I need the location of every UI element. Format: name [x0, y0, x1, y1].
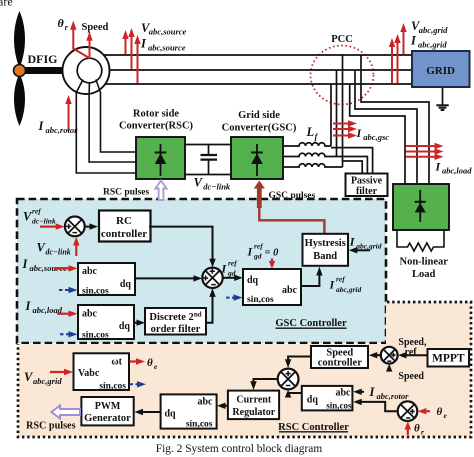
svg-text:sin,cos: sin,cos: [186, 420, 213, 430]
svg-text:filter: filter: [356, 186, 378, 197]
svg-text:sin,cos: sin,cos: [82, 287, 109, 297]
I_abc,load arrows: [406, 145, 437, 147]
theta_r arrow: [73, 29, 90, 59]
arrow J2 to dq/abc box: [223, 277, 237, 279]
wire dc link top: [185, 144, 231, 146]
svg-text:abc: abc: [82, 266, 98, 277]
svg-text:Speed: Speed: [82, 22, 109, 33]
wire dq/abc to Hystresis Band: [301, 272, 319, 286]
DFIG rotor inner circle: [77, 58, 102, 83]
svg-text:abc: abc: [282, 285, 298, 296]
svg-text:abc,grid: abc,grid: [419, 25, 448, 35]
wire rotor phase b: [89, 83, 136, 162]
load diode: [419, 190, 421, 222]
arrow I_abc,rotor into abc/dq: [359, 391, 364, 393]
svg-text:GRID: GRID: [426, 65, 455, 77]
svg-text:Load: Load: [412, 269, 436, 280]
svg-text:abc: abc: [336, 388, 352, 399]
svg-text:abc,source: abc,source: [149, 27, 187, 37]
blue dashed sin,cos arrow: [226, 297, 236, 299]
ground: [442, 87, 444, 105]
svg-text:PCC: PCC: [331, 34, 353, 45]
Vdc-link arrow up into J1: [75, 241, 77, 256]
svg-text:order filter: order filter: [151, 324, 201, 335]
svg-text:sin,cos: sin,cos: [99, 382, 126, 392]
wire RC controller to J2: [149, 227, 213, 261]
Passive filter box: [346, 174, 388, 197]
I_abc,rotor arrow: [68, 101, 70, 131]
GSC diode: [256, 144, 258, 176]
svg-text:Passive: Passive: [351, 176, 383, 187]
svg-text:controller: controller: [318, 358, 362, 369]
svg-text:Regulator: Regulator: [232, 407, 275, 418]
RSC diode: [160, 144, 162, 176]
svg-text:Non-linear: Non-linear: [399, 257, 448, 268]
svg-text:RSC pulses: RSC pulses: [103, 187, 149, 197]
svg-text:ref: ref: [32, 207, 42, 216]
svg-text:abc: abc: [82, 309, 98, 320]
wire gsc phase 1 riser: [330, 84, 332, 146]
MPPT box: [428, 349, 470, 367]
Discrete 2nd order filter box: [145, 308, 206, 335]
capacitor C dc-link: [208, 145, 210, 155]
inductor Lf row 1: [283, 143, 331, 146]
svg-text:Current: Current: [236, 395, 271, 406]
svg-text:controller: controller: [101, 228, 147, 240]
arrow J1 to RC controller: [85, 226, 91, 228]
wind turbine blades: [14, 11, 25, 64]
svg-text:dc−link: dc−link: [46, 248, 71, 257]
I_abc,load arrow into abc/dq box: [57, 313, 71, 315]
PCC dashed circle: [311, 46, 374, 105]
turbine shaft: [24, 67, 64, 74]
svg-text:Band: Band: [313, 251, 337, 262]
svg-text:sin,cos: sin,cos: [247, 295, 274, 305]
Hystresis Band box: [303, 234, 349, 266]
GSC pulses wire from hysteresis band: [259, 202, 324, 234]
Vabc box: [74, 353, 130, 390]
wire Speed controller to J3: [288, 357, 311, 363]
Speed controller box: [311, 346, 368, 368]
svg-text:sin,cos: sin,cos: [326, 401, 352, 411]
wire stator bus line 3: [105, 83, 412, 85]
wire J3 to Current Regulator: [254, 379, 278, 385]
inductor Lf row 2: [283, 153, 331, 156]
wire filter to J2: [206, 293, 213, 323]
svg-text:sin,cos: sin,cos: [82, 331, 109, 341]
summing junction J4: [381, 347, 398, 364]
GRID box: [412, 51, 470, 87]
Current Regulator box: [228, 391, 279, 420]
resistor of non-linear load: [397, 230, 444, 251]
svg-text:θ: θ: [437, 406, 443, 418]
svg-text:MPPT: MPPT: [432, 353, 465, 365]
inductor Lf row 3: [283, 164, 343, 167]
blue dashed sin,cos arrow: [59, 289, 71, 291]
wire stator bus line 1: [104, 54, 412, 56]
wire rotor phase c: [96, 80, 136, 153]
wire gsc phase 2 riser: [336, 70, 338, 157]
svg-text:θ: θ: [147, 357, 153, 369]
svg-text:r: r: [421, 428, 424, 437]
svg-text:dq: dq: [307, 395, 319, 406]
svg-text:Fig. 2 System control block di: Fig. 2 System control block diagram: [156, 443, 323, 455]
red arrow V_abc,grid into Vabc box: [50, 371, 67, 373]
summing junction J2: [202, 268, 222, 288]
wire filter tap 2: [331, 157, 367, 174]
wire stator bus line 2: [109, 69, 412, 71]
wire J5 to sin,cos of abc/dq: [359, 402, 398, 411]
svg-text:dq: dq: [119, 321, 131, 332]
svg-text:abc: abc: [198, 397, 214, 408]
summing junction J5: [398, 401, 418, 421]
summing junction J3: [278, 369, 299, 390]
svg-text:Generator: Generator: [84, 413, 131, 424]
wire load line 2: [355, 70, 417, 184]
dq-abc box (RSC): [161, 394, 217, 428]
V,I abc,source arrows: [125, 36, 127, 55]
wire dq out of abc/dq (rotor) to J3: [288, 392, 302, 393]
svg-text:abc,rotor: abc,rotor: [377, 391, 410, 401]
blue dashed sin,cos arrow: [60, 333, 71, 335]
svg-text:dq: dq: [247, 275, 259, 286]
svg-text:dq: dq: [165, 409, 177, 420]
RC controller box: [99, 211, 151, 242]
arrow to Discrete filter: [134, 322, 139, 324]
arrow dq/abc to PWM: [141, 411, 161, 413]
svg-text:= 0: = 0: [265, 248, 280, 259]
svg-text:are: are: [0, 0, 13, 9]
abc-dq box (rotor current): [302, 386, 353, 411]
svg-text:dc−link: dc−link: [203, 181, 231, 191]
svg-text:abc,load: abc,load: [442, 165, 472, 175]
Vref arrow into J1: [40, 226, 59, 228]
svg-text:ref: ref: [336, 275, 346, 284]
converter GSC box: [231, 137, 283, 179]
svg-text:ref: ref: [228, 259, 238, 268]
svg-text:gd: gd: [253, 252, 262, 261]
wire gsc phase 3 riser: [342, 55, 344, 167]
svg-text:PWM: PWM: [95, 401, 121, 412]
svg-text:dq: dq: [120, 279, 132, 290]
RSC pulses output arrow (left): [51, 406, 80, 419]
summing junction J1: [65, 217, 85, 237]
svg-text:Converter(RSC): Converter(RSC): [119, 121, 194, 132]
red arrow wt to theta_e: [130, 360, 139, 362]
wire dc link bottom: [185, 174, 231, 176]
svg-text:θ: θ: [58, 16, 65, 30]
wire filter tap 1: [331, 148, 373, 174]
abc-dq box (source current): [78, 263, 135, 295]
svg-text:GSC pulses: GSC pulses: [269, 191, 316, 201]
abc-dq box (load current): [78, 305, 134, 339]
wire load line 3: [350, 84, 405, 184]
GSC controller background box: [17, 199, 386, 343]
red arrow theta_r up into J5: [407, 426, 409, 436]
svg-text:Speed: Speed: [398, 371, 424, 382]
svg-text:RSC pulses: RSC pulses: [26, 421, 76, 432]
svg-text:Hystresis: Hystresis: [305, 238, 346, 249]
svg-text:abc,gsc: abc,gsc: [363, 132, 389, 142]
V,I abc,grid arrows: [391, 44, 393, 84]
svg-text:dc−link: dc−link: [32, 217, 56, 226]
svg-text:abc,source: abc,source: [148, 43, 186, 53]
svg-text:Rotor side: Rotor side: [133, 108, 180, 119]
svg-text:Grid side: Grid side: [238, 110, 280, 121]
arrow Current Regulator to dq/abc: [223, 405, 228, 407]
svg-text:DFIG: DFIG: [28, 52, 58, 66]
Speed arrow: [89, 40, 91, 58]
I_abc,gsc arrows: [333, 123, 351, 125]
arrow MPPT to J4: [404, 354, 428, 356]
PWM Generator box: [81, 397, 133, 425]
svg-text:ωt: ωt: [111, 357, 122, 368]
non-linear load converter box: [393, 184, 449, 230]
svg-text:abc,grid: abc,grid: [33, 376, 62, 386]
red arrow Igd=0 down into dq/abc: [271, 259, 273, 264]
svg-text:GSC Controller: GSC Controller: [275, 318, 347, 329]
red arrow theta_e into J5: [423, 410, 430, 412]
wire filter tap 3: [343, 161, 363, 174]
wire rotor phase a: [76, 80, 136, 174]
svg-text:abc,grid: abc,grid: [336, 285, 361, 294]
dq-abc box (GSC): [243, 269, 301, 305]
I_abc,source arrow into abc/dq box: [54, 267, 71, 269]
svg-text:ref: ref: [254, 242, 264, 251]
blue dashed arrow sin,cos out: [130, 383, 140, 385]
svg-text:Vabc: Vabc: [78, 368, 100, 379]
arrow I_abc,grid into Hystresis Band: [355, 249, 370, 251]
wire load line 1: [361, 55, 429, 184]
DFIG generator outer circle: [63, 47, 110, 94]
RSC pulses arrow (up): [155, 181, 166, 201]
arrow J4 to Speed controller: [375, 354, 381, 356]
GSC pulses arrow (up): [254, 181, 265, 209]
svg-text:θ: θ: [414, 423, 420, 435]
converter RSC box: [136, 137, 185, 179]
svg-text:Converter(GSC): Converter(GSC): [222, 123, 297, 134]
svg-text:L: L: [306, 125, 315, 139]
turbine hub: [14, 65, 26, 77]
svg-text:abc,rotor: abc,rotor: [46, 125, 79, 135]
svg-text:RC: RC: [116, 215, 132, 227]
arrow abc/dq to J2: [135, 277, 196, 279]
svg-text:abc,grid: abc,grid: [418, 40, 447, 50]
RSC controller background box: [18, 302, 471, 437]
